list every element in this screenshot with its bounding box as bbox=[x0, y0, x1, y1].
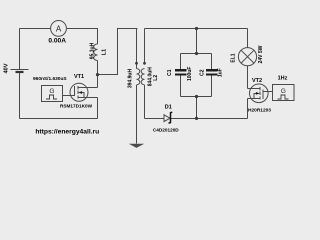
svg-text:https://energy4all.ru: https://energy4all.ru bbox=[35, 129, 99, 136]
svg-text:394.9uH: 394.9uH bbox=[128, 69, 134, 89]
svg-text:H20R1203: H20R1203 bbox=[248, 108, 271, 114]
svg-text:VT2: VT2 bbox=[252, 78, 262, 84]
svg-text:1uF: 1uF bbox=[218, 68, 224, 77]
svg-text:40V: 40V bbox=[4, 63, 10, 73]
svg-text:L1: L1 bbox=[102, 49, 108, 55]
svg-text:G: G bbox=[281, 88, 286, 95]
svg-text:C4D20120D: C4D20120D bbox=[153, 128, 179, 133]
svg-text:C1: C1 bbox=[167, 69, 173, 76]
svg-text:24V 5W: 24V 5W bbox=[258, 45, 264, 63]
svg-text:0.00A: 0.00A bbox=[48, 38, 66, 45]
svg-text:C2: C2 bbox=[200, 69, 206, 76]
svg-text:G: G bbox=[49, 88, 54, 95]
svg-text:960nS/1.630uS: 960nS/1.630uS bbox=[33, 76, 67, 82]
svg-text:EL1: EL1 bbox=[230, 53, 236, 62]
svg-text:L2: L2 bbox=[153, 75, 159, 81]
svg-text:1Hz: 1Hz bbox=[278, 76, 288, 82]
svg-text:D1: D1 bbox=[165, 105, 172, 111]
svg-text:95.1uH: 95.1uH bbox=[90, 42, 96, 59]
svg-text:VT1: VT1 bbox=[74, 74, 84, 80]
svg-text:A: A bbox=[56, 25, 62, 34]
svg-text:100uF: 100uF bbox=[187, 67, 193, 81]
svg-text:RSM17D1K0W: RSM17D1K0W bbox=[60, 104, 93, 109]
